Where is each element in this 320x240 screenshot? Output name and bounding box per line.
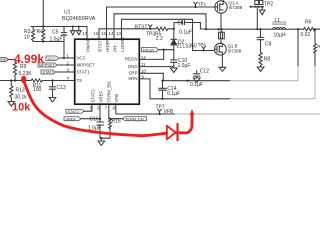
node flag triangles on VCC rail [72,27,74,31]
svg-text:STAT1: STAT1 [77,69,91,74]
svg-text:PH: PH [113,46,118,52]
net STAT2 [66,109,84,113]
wire pin3 [56,71,75,73]
wire VFB long gray [175,113,320,115]
chip pin7 wire + TERM_EN [108,104,110,119]
gray faded wires [175,66,320,114]
svg-text:TERM_EN: TERM_EN [125,116,144,121]
wire SRN row [150,98,230,100]
red blob start [21,76,26,83]
svg-text:TP3: TP3 [146,32,155,38]
wire VREF label to R9 [9,59,16,61]
ground C12 [193,78,200,82]
svg-text:VFB: VFB [114,94,119,103]
svg-text:4.99k: 4.99k [14,52,44,66]
resistor R4 [42,27,45,42]
svg-text:C6: C6 [177,21,184,27]
svg-text:SRN: SRN [128,76,137,81]
svg-text:0.02: 0.02 [301,32,311,38]
diode D2 [173,29,175,40]
svg-text:PwPd: PwPd [86,40,91,52]
svg-text:VCC: VCC [77,55,86,60]
capacitor C9 [260,29,262,37]
wire R3R4 bottom bar [33,41,64,43]
ferrite bar L1 [273,22,286,25]
svg-text:10: 10 [141,69,146,74]
svg-text:REGN: REGN [125,57,138,62]
chip pin6 wire + VREF label wire [99,104,101,119]
svg-text:ZLLS350: ZLLS350 [177,44,198,50]
svg-text:1.0µF: 1.0µF [178,63,191,69]
svg-text:,17: ,17 [81,31,88,36]
testpoint TP3 [148,25,152,29]
svg-text:R6: R6 [305,20,312,26]
capacitor C13 [52,81,54,87]
svg-text:STAT1: STAT1 [43,70,55,75]
svg-text:2.2: 2.2 [156,36,163,42]
svg-text:10µH: 10µH [274,33,286,39]
svg-text:0.1µF: 0.1µF [190,82,203,88]
svg-text:VREF: VREF [66,116,77,121]
mosfet Q1:A [215,1,227,13]
svg-text:REGN: REGN [143,47,154,52]
package box Q1 [219,32,225,39]
capacitor C16 [99,119,101,122]
red arrow head [189,109,194,116]
wire REGN row [159,49,174,51]
wire pin1 [59,57,75,59]
svg-text:STAT2: STAT2 [68,109,80,114]
resistor R11 [31,79,42,82]
svg-text:SRP: SRP [128,71,137,76]
wire pin11 GND row [139,66,174,68]
net VREF bottom [64,117,81,121]
svg-text:C12: C12 [200,69,209,75]
net STAT1 [41,70,56,74]
chip pin names [77,37,138,103]
svg-text:TP2: TP2 [264,2,273,8]
resistor R7 [314,44,317,55]
svg-text:C16: C16 [90,117,99,123]
svg-text:STAT2: STAT2 [91,89,96,103]
inductor L1 [273,28,286,30]
svg-text:0.1µF: 0.1µF [167,91,180,97]
net REGN [142,48,159,52]
capacitor C6 [181,20,183,24]
resistor R16 [109,118,111,121]
svg-text:15: 15 [101,31,106,36]
svg-text:16: 16 [94,31,99,36]
pin16 stub BTST row [98,29,100,40]
wire input feed vertical [42,0,44,27]
svg-text:5.23K: 5.23K [19,71,33,77]
svg-text:HIDRV: HIDRV [105,38,110,52]
svg-text:TERM_EN: TERM_EN [106,82,111,103]
pin17 stub [86,27,88,40]
svg-text:13: 13 [116,31,121,36]
chip pin5 wire + STAT2 label wire [91,104,93,111]
svg-text:R16: R16 [112,118,121,124]
svg-text:Si7288: Si7288 [228,48,242,53]
svg-text:R13: R13 [16,88,25,94]
mosfet Q1:B [214,43,226,55]
red diode [167,126,176,140]
svg-text:C13: C13 [57,85,66,91]
svg-text:10k: 10k [12,102,31,114]
testpoint TP4 [203,49,205,51]
svg-text:R4: R4 [37,29,44,35]
svg-text:14: 14 [109,31,114,36]
resistor R8 [259,53,262,68]
testpoint TP7 [158,109,162,114]
wire C6 raised jog [174,23,200,29]
TP2 cluster bar [250,6,264,8]
ground Q1:B [219,67,226,71]
chip pin8 wire VFB [115,104,117,114]
svg-text:L1: L1 [275,18,281,24]
svg-text:1.0µF: 1.0µF [50,37,63,43]
svg-text:C9: C9 [265,42,272,48]
svg-text:TP4: TP4 [198,42,207,47]
capacitor C14 [162,81,164,89]
capacitor C5 [63,27,65,33]
svg-text:BTST: BTST [135,24,148,30]
svg-text:R8: R8 [264,56,271,62]
pin13 riser LODRV [121,19,123,39]
net TERM_EN [123,117,147,121]
svg-text:TP1: TP1 [198,2,207,7]
power bus PH row [200,28,206,30]
capacitor C12 [196,71,198,74]
wire pin10 SRP [139,72,163,74]
net VCC [46,56,59,60]
svg-text:10: 10 [24,35,30,41]
wire SRP sense drop dark part [297,29,299,66]
resistor R9 [13,60,16,81]
svg-text:VREF: VREF [99,90,104,102]
svg-text:VCC: VCC [48,56,56,61]
wire R3R4 top bar [31,26,45,28]
svg-text:BQ24650RVA: BQ24650RVA [62,16,96,22]
net VREF left [0,58,9,62]
svg-text:30.1k: 30.1k [15,95,28,101]
pin15 riser HIDRV [106,7,108,40]
chip U1 body [75,39,140,104]
flag triangle TP2 [259,10,265,15]
wire R5 to D2 node [168,28,174,30]
ground C13 [49,98,56,103]
svg-text:BTST: BTST [98,40,103,52]
svg-text:GND: GND [128,64,138,69]
resistor R3 [31,27,34,42]
resistor R6 [304,28,316,31]
svg-text:100: 100 [33,87,42,93]
wire VCC rail to pin 17 [45,26,87,28]
svg-text:U1: U1 [64,10,71,16]
svg-text:Si7288: Si7288 [229,5,243,10]
svg-text:11: 11 [141,62,146,67]
ground R13 [8,102,15,107]
wire pin4 TS row [0,80,31,82]
svg-text:TS: TS [77,78,83,83]
wire SRP row [162,80,230,82]
pin numbers [67,31,147,110]
svg-text:VREF: VREF [0,57,9,62]
wire VCC drop to pin1 [63,42,65,59]
testpoint TP1 [194,2,198,7]
svg-text:MPPSET: MPPSET [77,62,95,67]
svg-text:0.1µF: 0.1µF [179,29,192,35]
wire pin2 [57,64,75,66]
capacitor C10 [173,50,175,60]
svg-text:VFB: VFB [164,109,174,115]
ground R8 [257,67,264,72]
ground C10 [170,68,177,73]
pin14 riser PH [113,14,115,40]
svg-text:12: 12 [141,55,146,60]
wire SRN sense drop dark part [314,29,316,43]
ground C16 R16 shared [98,141,105,146]
net labels (hexagon flags) [0,48,159,121]
net MPPSET [38,63,57,67]
resistor R13 [10,81,13,102]
net label texts [0,47,154,121]
resistor R5 [156,27,168,30]
svg-text:LODRV: LODRV [120,37,125,52]
wire pin9 SRN [139,78,150,80]
red marker curve [24,80,193,140]
svg-text:C5: C5 [52,29,59,35]
